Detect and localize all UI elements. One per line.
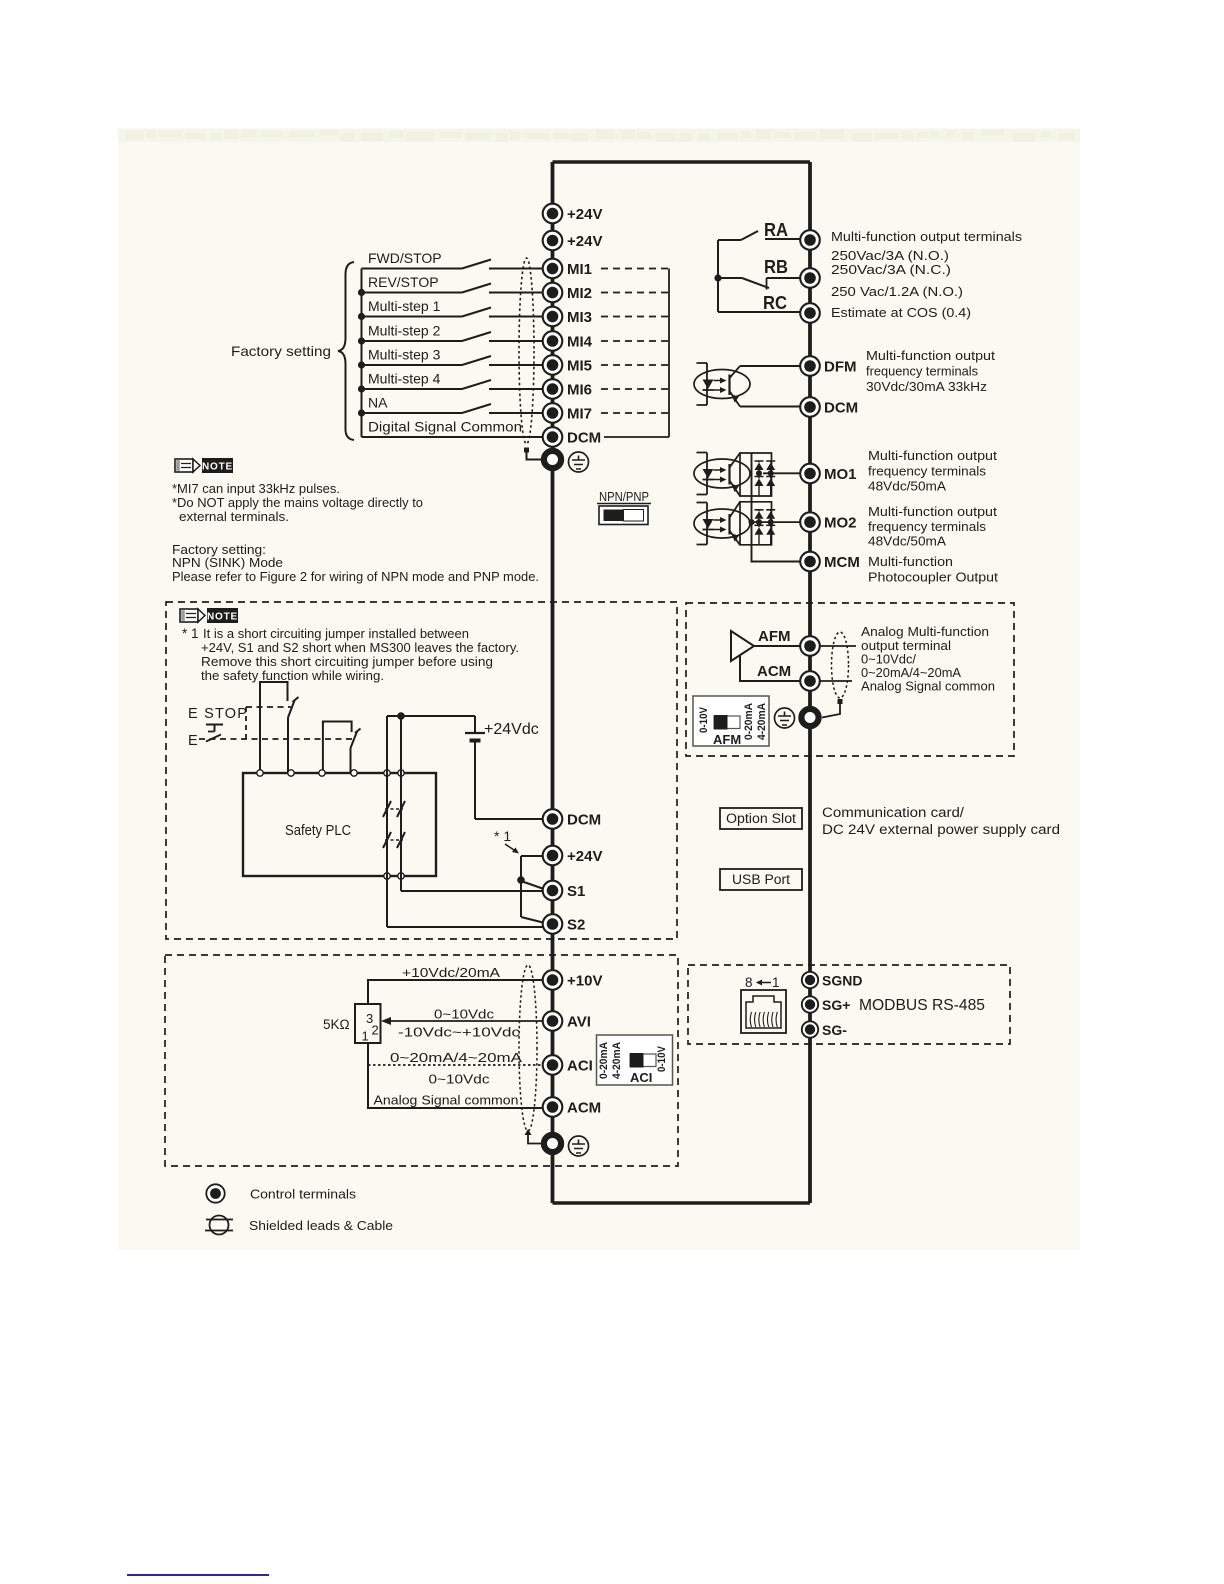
svg-text:250Vac/3A (N.O.): 250Vac/3A (N.O.) <box>831 248 949 263</box>
wire: safety channel 2 <box>400 716 402 891</box>
svg-text:0~10Vdc: 0~10Vdc <box>434 1007 495 1022</box>
svg-text:Multi-step 3: Multi-step 3 <box>368 347 441 363</box>
terminal MI6 <box>543 379 592 399</box>
terminal DCM <box>543 427 601 447</box>
USB port box <box>720 869 802 890</box>
svg-text:RA: RA <box>764 219 788 240</box>
svg-text:Communication card/: Communication card/ <box>822 805 964 820</box>
svg-text:Analog Signal common: Analog Signal common <box>374 1093 519 1108</box>
svg-text:+24V: +24V <box>567 848 602 865</box>
switch Multi-step 1 input row <box>358 298 543 320</box>
svg-text:0-10V: 0-10V <box>656 1045 668 1072</box>
jumper *1 between +24V S1 S2 <box>517 856 545 923</box>
svg-text:AVI: AVI <box>567 1014 591 1031</box>
legend shielded leads symbol <box>205 1216 233 1235</box>
svg-text:Safety PLC: Safety PLC <box>285 823 351 839</box>
svg-text:It is a short circuiting jumpe: It is a short circuiting jumper installe… <box>203 626 469 641</box>
wire +10V supply <box>368 980 543 1004</box>
svg-text:30Vdc/30mA 33kHz: 30Vdc/30mA 33kHz <box>866 379 987 394</box>
switch Multi-step 3 input row <box>358 347 543 369</box>
svg-text:frequency terminals: frequency terminals <box>866 364 978 379</box>
svg-text:ACM: ACM <box>757 663 791 680</box>
terminal RC <box>800 303 820 323</box>
switch box ACI 0-20mA / 0-10V <box>597 1035 673 1085</box>
wire ACI input (dotted) <box>368 1064 543 1066</box>
terminal MO2 <box>800 512 856 532</box>
svg-text:the safety function while wiri: the safety function while wiring. <box>201 668 384 683</box>
diode bridge MO1 <box>740 453 775 496</box>
wire AVI input with wiper arrow <box>381 1017 543 1025</box>
svg-text:Analog Signal common: Analog Signal common <box>861 679 995 694</box>
svg-text:DC 24V external power supply c: DC 24V external power supply card <box>822 822 1060 837</box>
svg-text:ACI: ACI <box>567 1058 593 1075</box>
amplifier AFM <box>731 631 754 661</box>
annotation MO1 ratings <box>868 448 997 494</box>
svg-text:Remove this short circuiting j: Remove this short circuiting jumper befo… <box>201 654 493 669</box>
terminal MI1 <box>543 259 592 279</box>
svg-text:Please refer to Figure 2 for w: Please refer to Figure 2 for wiring of N… <box>172 569 539 584</box>
svg-text:Analog Multi-function: Analog Multi-function <box>861 624 989 639</box>
terminal +24V (safety) <box>543 846 603 866</box>
wire ACM common <box>368 1043 543 1108</box>
svg-text:Estimate at COS (0.4): Estimate at COS (0.4) <box>831 305 971 320</box>
pins on safety PLC <box>257 770 404 879</box>
switch box AFM 0-10V / 0-20mA <box>693 696 769 747</box>
svg-text:+10Vdc/20mA: +10Vdc/20mA <box>402 965 500 980</box>
label *1 with arrow <box>494 828 519 854</box>
svg-text:USB Port: USB Port <box>732 872 790 887</box>
svg-text:E: E <box>188 733 198 749</box>
svg-text:NA: NA <box>368 395 388 411</box>
svg-text:Multi-function output: Multi-function output <box>866 348 995 363</box>
option slot box <box>720 808 802 829</box>
svg-text:Shielded leads & Cable: Shielded leads & Cable <box>249 1218 393 1233</box>
svg-text:RB: RB <box>764 256 788 277</box>
svg-text:MI2: MI2 <box>567 285 592 302</box>
wire: left terminal bus <box>551 162 555 1203</box>
svg-text:0-20mA: 0-20mA <box>743 703 755 740</box>
svg-text:AFM: AFM <box>713 732 741 747</box>
wire: safety channel 1 <box>386 716 388 927</box>
switch REV/STOP input row <box>358 274 543 296</box>
svg-text:Multi-step 2: Multi-step 2 <box>368 323 441 339</box>
terminal DCM (safety) <box>543 809 601 829</box>
label E- <box>188 733 198 749</box>
terminal ACM (analog in) <box>543 1097 601 1117</box>
svg-text:Multi-function output: Multi-function output <box>868 448 997 463</box>
ground shield terminal (analog) <box>544 1135 561 1152</box>
analog output dashed enclosure <box>686 603 1014 756</box>
svg-text:4-20mA: 4-20mA <box>756 703 768 740</box>
svg-text:DFM: DFM <box>824 359 857 376</box>
label AFM <box>758 628 791 645</box>
label 0~10Vdc (ACI) <box>429 1072 491 1087</box>
switch Digital Signal Common input row <box>362 419 544 438</box>
svg-text:8: 8 <box>745 975 753 990</box>
svg-text:5KΩ: 5KΩ <box>323 1017 350 1032</box>
earth symbol (analog) <box>569 1136 589 1156</box>
svg-text:MI3: MI3 <box>567 309 592 326</box>
svg-text:Option Slot: Option Slot <box>726 811 796 826</box>
wire: battery to DCM <box>475 818 543 820</box>
wire: E-stop actuation dashed link <box>199 707 355 739</box>
terminal ACM (analog out) <box>800 671 820 691</box>
label E STOP <box>188 706 248 722</box>
terminal RA <box>800 230 820 250</box>
legend control terminal symbol <box>206 1184 224 1202</box>
svg-text:DCM: DCM <box>824 400 858 417</box>
svg-text:48Vdc/50mA: 48Vdc/50mA <box>868 479 946 494</box>
footer rule <box>127 1574 269 1576</box>
svg-text:frequency terminals: frequency terminals <box>868 519 987 534</box>
svg-text:S1: S1 <box>567 883 585 900</box>
label RB <box>764 256 788 277</box>
svg-text:MI4: MI4 <box>567 334 593 351</box>
svg-text:DCM: DCM <box>567 812 601 829</box>
svg-text:Multi-step 1: Multi-step 1 <box>368 298 441 314</box>
wire AFM output <box>754 645 800 647</box>
svg-text:+24V, S1 and S2 short when MS3: +24V, S1 and S2 short when MS300 leaves … <box>201 640 519 655</box>
svg-text:-10Vdc~+10Vdc: -10Vdc~+10Vdc <box>398 1025 521 1040</box>
svg-text:Multi-function output terminal: Multi-function output terminals <box>831 229 1023 244</box>
svg-text:NPN/PNP: NPN/PNP <box>599 490 649 504</box>
svg-text:ACM: ACM <box>567 1100 601 1117</box>
note icon 2 <box>180 608 238 623</box>
shielded-cable ellipse around digital inputs <box>519 258 541 460</box>
label 0~20mA/4~20mA <box>390 1050 522 1065</box>
terminal AFM <box>800 636 820 656</box>
label +10Vdc/20mA <box>402 965 500 980</box>
svg-text:+24V: +24V <box>567 206 602 223</box>
svg-text:250Vac/3A (N.C.): 250Vac/3A (N.C.) <box>831 262 951 277</box>
optocoupler U-MO1 <box>694 453 750 497</box>
earth symbol (AFM) <box>775 708 795 728</box>
svg-text:0-20mA: 0-20mA <box>598 1042 610 1079</box>
terminal S2 <box>543 914 586 934</box>
svg-text:external terminals.: external terminals. <box>179 509 289 524</box>
label -10Vdc~+10Vdc <box>398 1025 521 1040</box>
switch Multi-step 4 input row <box>358 371 543 393</box>
terminal DFM <box>800 356 856 376</box>
terminal SG+ <box>802 996 851 1013</box>
svg-text:Multi-function output: Multi-function output <box>868 504 997 519</box>
terminal MI2 <box>543 283 592 303</box>
emergency stop button E-STOP <box>206 725 223 742</box>
svg-text:RC: RC <box>763 292 787 313</box>
svg-text:0-10V: 0-10V <box>698 706 710 733</box>
annotation AFM <box>861 624 995 694</box>
annotation relay ratings <box>831 229 1023 320</box>
svg-text:* 1: * 1 <box>494 828 511 844</box>
RJ45 connector <box>741 990 786 1033</box>
svg-text:MO1: MO1 <box>824 466 857 483</box>
optocoupler U-DFM <box>694 363 750 407</box>
note text: safety jumper <box>182 626 519 683</box>
svg-text:2: 2 <box>372 1023 379 1038</box>
svg-text:MI6: MI6 <box>567 382 592 399</box>
switch: safety contact 2 <box>323 722 361 774</box>
wire: S1 to PLC <box>401 890 544 892</box>
svg-text:FWD/STOP: FWD/STOP <box>368 250 442 266</box>
shielded-cable ellipse (analog input) <box>519 965 541 1144</box>
label 8 to 1 <box>745 975 780 990</box>
switch: PLC safety contacts pair 1 <box>383 801 405 817</box>
annotation MCM <box>868 554 998 585</box>
ground shield terminal (digital) <box>544 451 561 468</box>
label Analog Signal common <box>374 1093 519 1108</box>
svg-text:48Vdc/50mA: 48Vdc/50mA <box>868 534 946 549</box>
optocoupler U-MO2 <box>694 502 750 545</box>
label 5Kohm <box>323 1017 350 1032</box>
note text: MI7 / mains voltage <box>172 481 423 524</box>
wire: +24V rail to battery <box>387 712 475 720</box>
potentiometer 5K <box>355 1004 381 1044</box>
wire: MI feedback dashed lines <box>601 269 669 438</box>
svg-text:NPN (SINK) Mode: NPN (SINK) Mode <box>172 555 283 570</box>
terminal MI4 <box>543 331 593 351</box>
switch FWD/STOP input row <box>362 250 544 269</box>
svg-text:1: 1 <box>772 975 780 990</box>
label RA <box>764 219 788 240</box>
terminal SGND <box>802 972 863 989</box>
relay output RA/RB/RC <box>714 231 801 312</box>
svg-text:S2: S2 <box>567 917 585 934</box>
svg-text:+24Vdc: +24Vdc <box>484 721 539 738</box>
terminal AVI <box>543 1011 591 1031</box>
annotation MO2 ratings <box>868 504 997 549</box>
svg-text:Control terminals: Control terminals <box>250 1187 357 1202</box>
note icon 1 <box>175 458 233 473</box>
svg-text:frequency terminals: frequency terminals <box>868 464 987 479</box>
svg-text:SG-: SG- <box>822 1022 847 1038</box>
terminal SG- <box>802 1021 847 1038</box>
terminal MCM <box>800 552 860 572</box>
svg-text:DCM: DCM <box>567 430 601 447</box>
wire: right terminal bus <box>808 162 812 1203</box>
svg-text:+10V: +10V <box>567 973 602 990</box>
svg-text:SG+: SG+ <box>822 997 850 1013</box>
legend label shielded leads <box>249 1218 393 1233</box>
switch Multi-step 2 input row <box>358 323 543 345</box>
svg-text:ACI: ACI <box>630 1070 652 1085</box>
svg-text:*Do NOT apply the mains voltag: *Do NOT apply the mains voltage directly… <box>172 495 423 510</box>
brace factory setting group <box>338 262 354 440</box>
label RC <box>763 292 787 313</box>
svg-text:REV/STOP: REV/STOP <box>368 274 439 290</box>
wire: S2 to PLC <box>387 926 546 928</box>
svg-text:NOTE: NOTE <box>207 612 238 623</box>
svg-text:Multi-function: Multi-function <box>868 554 953 569</box>
terminal MI5 <box>543 355 592 375</box>
svg-text:0~10Vdc: 0~10Vdc <box>429 1072 491 1087</box>
svg-text:Photocoupler Output: Photocoupler Output <box>868 570 998 585</box>
svg-text:4-20mA: 4-20mA <box>611 1042 623 1079</box>
terminal MO1 <box>800 464 856 484</box>
wire MO1 output <box>763 472 800 474</box>
wire: digital input common rail <box>361 269 363 438</box>
svg-text:MO2: MO2 <box>824 515 857 532</box>
wire MCM common <box>752 453 801 562</box>
wire: drive boundary top <box>553 160 811 163</box>
terminal DCM (output) <box>800 397 858 417</box>
svg-text:*MI7 can input 33kHz pulses.: *MI7 can input 33kHz pulses. <box>172 481 340 496</box>
safety function dashed enclosure <box>166 602 677 939</box>
shielded-cable ellipse (AFM) <box>822 632 849 718</box>
wire: drive boundary bottom <box>553 1201 811 1204</box>
terminal MI7 <box>543 403 592 423</box>
switch NA input row <box>358 395 543 417</box>
label ACM <box>757 663 791 680</box>
label 0~10Vdc (AVI) <box>434 1007 495 1022</box>
svg-text:MI5: MI5 <box>567 358 592 375</box>
safety PLC box <box>243 773 436 876</box>
svg-text:0~20mA/4~20mA: 0~20mA/4~20mA <box>390 1050 522 1065</box>
label +24Vdc <box>484 721 539 738</box>
ground shield terminal (AFM) <box>801 709 818 726</box>
terminal S1 <box>543 881 586 901</box>
svg-text:250 Vac/1.2A (N.O.): 250 Vac/1.2A (N.O.) <box>831 284 963 299</box>
wire DFM output <box>740 366 800 407</box>
terminal MI3 <box>543 307 592 327</box>
svg-text:Multi-step 4: Multi-step 4 <box>368 371 441 387</box>
switch NPN/PNP selector <box>597 490 651 525</box>
svg-text:SGND: SGND <box>822 973 862 989</box>
switch: PLC safety contacts pair 2 <box>383 832 405 848</box>
svg-text:Digital Signal Common: Digital Signal Common <box>368 419 522 435</box>
svg-text:MI7: MI7 <box>567 406 592 423</box>
svg-text:Factory setting: Factory setting <box>231 343 331 359</box>
analog input dashed enclosure <box>165 955 678 1166</box>
legend label control terminals <box>250 1187 357 1202</box>
annotation DFM ratings <box>866 348 995 394</box>
battery +24Vdc <box>465 716 485 819</box>
wire AFM external leads <box>820 646 856 681</box>
wire ACM drop <box>740 656 800 681</box>
svg-text:+24V: +24V <box>567 233 602 250</box>
svg-text:AFM: AFM <box>758 628 791 645</box>
svg-text:E STOP: E STOP <box>188 706 248 722</box>
wire MO2 output <box>749 519 801 525</box>
switch: safety contact 1 <box>260 682 299 773</box>
terminal +24V <box>543 231 603 251</box>
svg-text:MI1: MI1 <box>567 261 592 278</box>
note text: factory setting NPN mode <box>172 542 539 584</box>
terminal +24V <box>543 204 603 224</box>
label Factory setting <box>231 343 331 359</box>
earth symbol (digital) <box>569 452 589 472</box>
svg-text:NOTE: NOTE <box>202 462 233 473</box>
terminal +10V <box>543 970 603 990</box>
svg-text:* 1: * 1 <box>182 626 199 641</box>
label MODBUS RS-485 <box>859 997 985 1014</box>
svg-text:1: 1 <box>362 1029 369 1044</box>
svg-text:MODBUS RS-485: MODBUS RS-485 <box>859 997 985 1014</box>
terminal RB <box>800 268 820 288</box>
annotation communication card <box>822 805 1060 837</box>
svg-text:MCM: MCM <box>824 554 860 571</box>
RS-485 dashed enclosure <box>688 965 1010 1044</box>
diode bridge MO2 <box>740 502 775 545</box>
terminal ACI <box>543 1055 593 1075</box>
